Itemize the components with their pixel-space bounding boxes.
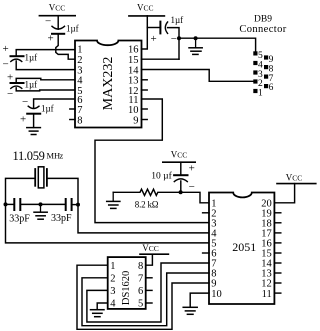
ground below 2051 pin 10: [183, 307, 197, 314]
capacitor C6 33pF left: [6, 199, 41, 224]
wire crystal right to XTAL node B: [47, 178, 78, 204]
capacitor C7 33pF right: [41, 199, 79, 224]
wire 2051 pin 10 to ground: [190, 293, 209, 307]
MAX232 right pin numbers: [128, 45, 139, 127]
svg-text:5: 5: [258, 51, 263, 61]
svg-text:+: +: [151, 33, 157, 45]
power Vcc top-left bar: [39, 15, 75, 17]
svg-text:−: −: [171, 33, 177, 45]
wire node A to 2051 pin 5 XTAL1: [6, 204, 210, 243]
wire RST node to 2051 pin 1: [181, 192, 209, 203]
DS1620 left pin numbers: [110, 261, 116, 310]
svg-text:+: +: [189, 163, 195, 175]
ground near DB9: [189, 38, 202, 54]
svg-text:4: 4: [110, 299, 116, 310]
transistor U2 2051 body: [209, 193, 274, 305]
wire crystal left to XTAL node A: [6, 178, 36, 204]
svg-text:33pF: 33pF: [51, 213, 72, 224]
svg-text:1µf: 1µf: [66, 24, 79, 34]
wire node B to 2051 pin 4 XTAL2: [78, 205, 209, 233]
wire C1 top to MAX232 pin 1: [16, 50, 75, 57]
wire C4 to MAX232 pin 2 with crossover jog: [56, 34, 75, 59]
svg-text:DS1620: DS1620: [121, 271, 132, 305]
wire DS1620 pin 1 to 2051 pin 9: [77, 265, 209, 329]
power Vcc DS1620 bar: [140, 253, 168, 255]
svg-text:2: 2: [110, 274, 115, 285]
wire C2 bottom to MAX232 pin 5: [16, 88, 75, 91]
DB9 left pin squares 5,4,3,2,1: [253, 51, 257, 93]
2051 right pin numbers: [261, 198, 272, 299]
svg-text:8.2 kΩ: 8.2 kΩ: [135, 200, 159, 210]
svg-text:+: +: [7, 72, 13, 84]
wire DS1620 pin 4 to ground: [97, 303, 108, 309]
wire Vcc bar to C4: [57, 16, 59, 30]
wire Vcc to 2051 pin 20: [274, 184, 294, 203]
svg-text:−: −: [45, 16, 51, 28]
node junction C5/gnd: [177, 36, 181, 40]
diode U3 DS1620 body: [108, 257, 146, 309]
svg-text:VCC: VCC: [137, 3, 154, 13]
node B junction: [76, 203, 80, 207]
svg-text:6: 6: [269, 83, 274, 93]
svg-text:3: 3: [110, 286, 115, 297]
MAX232 left pin stubs 7,8: [70, 108, 75, 110]
wire MAX232 pin 6 to C3: [34, 99, 75, 108]
capacitor C5 1uf (Vcc to ground): [147, 15, 183, 45]
crystal Y1: [35, 167, 47, 188]
node A junction: [4, 202, 8, 206]
MAX232 right pin stubs 13,12,10,9: [142, 79, 148, 81]
2051 left pin numbers: [211, 198, 222, 299]
svg-text:1µf: 1µf: [25, 80, 38, 90]
svg-text:+: +: [3, 43, 9, 55]
svg-text:MAX232: MAX232: [101, 57, 116, 111]
node junction ground tap: [194, 36, 198, 40]
svg-text:+: +: [20, 114, 26, 126]
svg-text:7: 7: [138, 274, 143, 285]
capacitor C1 1uf (MAX232 pins 1-3): [3, 43, 38, 71]
wire MAX232 pin 15 to ground node: [142, 58, 180, 60]
svg-text:−: −: [7, 88, 13, 100]
capacitor C3 1uf (MAX232 pin 6 to ground): [20, 96, 54, 126]
DB9 left pin numbers: [258, 51, 263, 99]
wire C2 top to MAX232 pin 4: [16, 78, 75, 83]
svg-text:−: −: [3, 59, 9, 71]
resistor R1 8.2k: [113, 189, 180, 195]
wire C5 to ground node: [168, 28, 179, 60]
svg-text:VCC: VCC: [49, 3, 66, 13]
svg-text:10 µf: 10 µf: [151, 170, 172, 181]
power Vcc top-middle bar: [129, 15, 165, 17]
svg-text:8: 8: [269, 65, 274, 75]
capacitor C2 1uf (MAX232 pins 4-5): [7, 72, 37, 101]
ground below DS1620: [91, 310, 105, 317]
svg-text:2: 2: [258, 79, 263, 89]
op-amp U1 MAX232 body: [75, 41, 142, 128]
svg-text:MH: MH: [47, 151, 61, 161]
2051 left pin stubs 2,6: [203, 212, 209, 214]
wire MAX232 pin 14 to DB9 pin 2: [142, 70, 254, 82]
ground between 33pF caps: [34, 204, 47, 219]
DS1620 right pin stubs 7,6,5: [146, 277, 152, 279]
svg-text:VCC: VCC: [171, 150, 188, 160]
wire DS1620 pin 2 to 2051 pin 8: [82, 273, 209, 326]
svg-text:Connector: Connector: [239, 24, 286, 35]
svg-text:9: 9: [269, 55, 274, 65]
svg-text:−: −: [22, 96, 28, 108]
svg-text:VCC: VCC: [142, 243, 159, 253]
svg-text:11: 11: [262, 289, 272, 300]
capacitor C8 10uf: [151, 163, 195, 194]
svg-text:1µf: 1µf: [171, 15, 184, 25]
svg-text:8: 8: [138, 261, 143, 272]
svg-text:VCC: VCC: [286, 172, 303, 182]
power Vcc bar above 10uf: [163, 161, 195, 163]
svg-text:5: 5: [138, 299, 143, 310]
wire C3 to ground: [33, 114, 35, 128]
svg-text:33pF: 33pF: [9, 213, 30, 224]
svg-text:2051: 2051: [232, 240, 256, 254]
ground left of R1: [107, 192, 120, 208]
svg-text:8: 8: [77, 115, 82, 126]
svg-text:1: 1: [110, 261, 115, 272]
node junction C6/C7 ground: [39, 202, 43, 206]
wire C8 to RST node: [180, 181, 182, 192]
ground below C3: [27, 128, 41, 135]
capacitor C4 1uf (Vcc to MAX232 pin2): [52, 26, 65, 29]
DB9 right pin squares 9,8,7,6: [264, 55, 268, 88]
svg-text:10: 10: [128, 105, 139, 116]
svg-text:z: z: [60, 151, 64, 161]
MAX232 left pin numbers: [77, 45, 83, 127]
power Vcc right bar: [277, 183, 316, 185]
DS1620 right pin numbers: [138, 261, 143, 310]
wire Vcc bar to C8: [180, 162, 182, 175]
svg-text:6: 6: [138, 286, 143, 297]
wire Vcc bar to MAX232 pin 16: [142, 16, 148, 49]
svg-text:1µf: 1µf: [25, 53, 38, 63]
node RST junction: [179, 190, 183, 194]
wire MAX232 pin 11 to 2051 pin 3: [95, 99, 209, 223]
svg-text:1µf: 1µf: [41, 104, 54, 114]
wire C1 bottom to MAX232 pin 3: [16, 61, 75, 70]
svg-text:7: 7: [77, 105, 82, 116]
svg-text:11.059: 11.059: [13, 149, 45, 163]
wire ground node to DB9 pin 5: [179, 38, 256, 51]
svg-text:+: +: [48, 33, 54, 45]
svg-text:4: 4: [258, 61, 263, 71]
svg-text:−: −: [189, 181, 195, 193]
2051 right pin stubs 19-11: [274, 213, 280, 293]
DB9 right pin numbers: [269, 55, 274, 93]
wire Vcc bar to DS1620 pin 8: [146, 254, 153, 265]
svg-text:9: 9: [133, 115, 138, 126]
svg-text:1: 1: [258, 89, 263, 99]
wire DS1620 pin 3 to 2051 pin 7: [87, 263, 209, 322]
svg-text:10: 10: [211, 289, 222, 300]
